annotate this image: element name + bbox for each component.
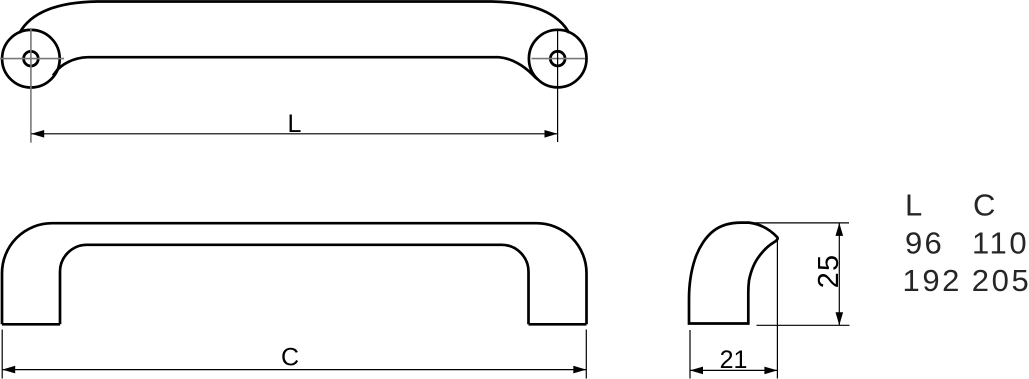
top view inner contour [53,57,538,79]
svg-text:192: 192 [903,263,963,298]
dimension line 25 [838,223,840,325]
right centerline horizontal [532,58,586,60]
svg-text:21: 21 [720,346,748,374]
svg-text:L: L [288,110,302,138]
left centerline horizontal [0,58,64,60]
side profile contour [689,223,778,324]
svg-text:110: 110 [972,225,1029,260]
extension line 21 left [689,330,691,379]
arrow right of 21 [764,367,777,375]
arrow bottom of 25 [836,312,844,325]
arrow left of C [2,366,15,374]
front view inner contour [60,245,529,324]
extension line C right [585,330,587,379]
svg-text:25: 25 [813,254,845,289]
top view outer contour [20,2,570,34]
extension line 21 right [776,238,778,379]
left boss circle [2,30,60,88]
arrow top of 25 [836,223,844,236]
extension line C left [1,330,3,379]
arrow right of L [545,130,558,138]
extension line 25 bottom [757,324,850,326]
svg-text:96: 96 [905,225,944,260]
svg-text:L: L [905,187,922,222]
front view left foot bottom [2,323,60,326]
left centerline vertical / extension line [30,29,32,143]
dimension line 21 [690,369,777,371]
front view outer contour [2,223,587,324]
svg-text:C: C [973,187,995,222]
svg-text:C: C [281,344,299,372]
extension line 25 top [753,222,849,224]
right centerline vertical / extension line [557,31,559,142]
right boss circle [529,30,587,88]
front view right foot bottom [529,323,587,326]
svg-text:205: 205 [972,263,1029,298]
dimension line L [31,133,557,135]
right hole [550,51,565,66]
arrow left of L [31,130,44,138]
left hole [24,51,39,66]
dimension line C [2,369,586,371]
arrow right of C [573,366,586,374]
arrow left of 21 [690,367,703,375]
